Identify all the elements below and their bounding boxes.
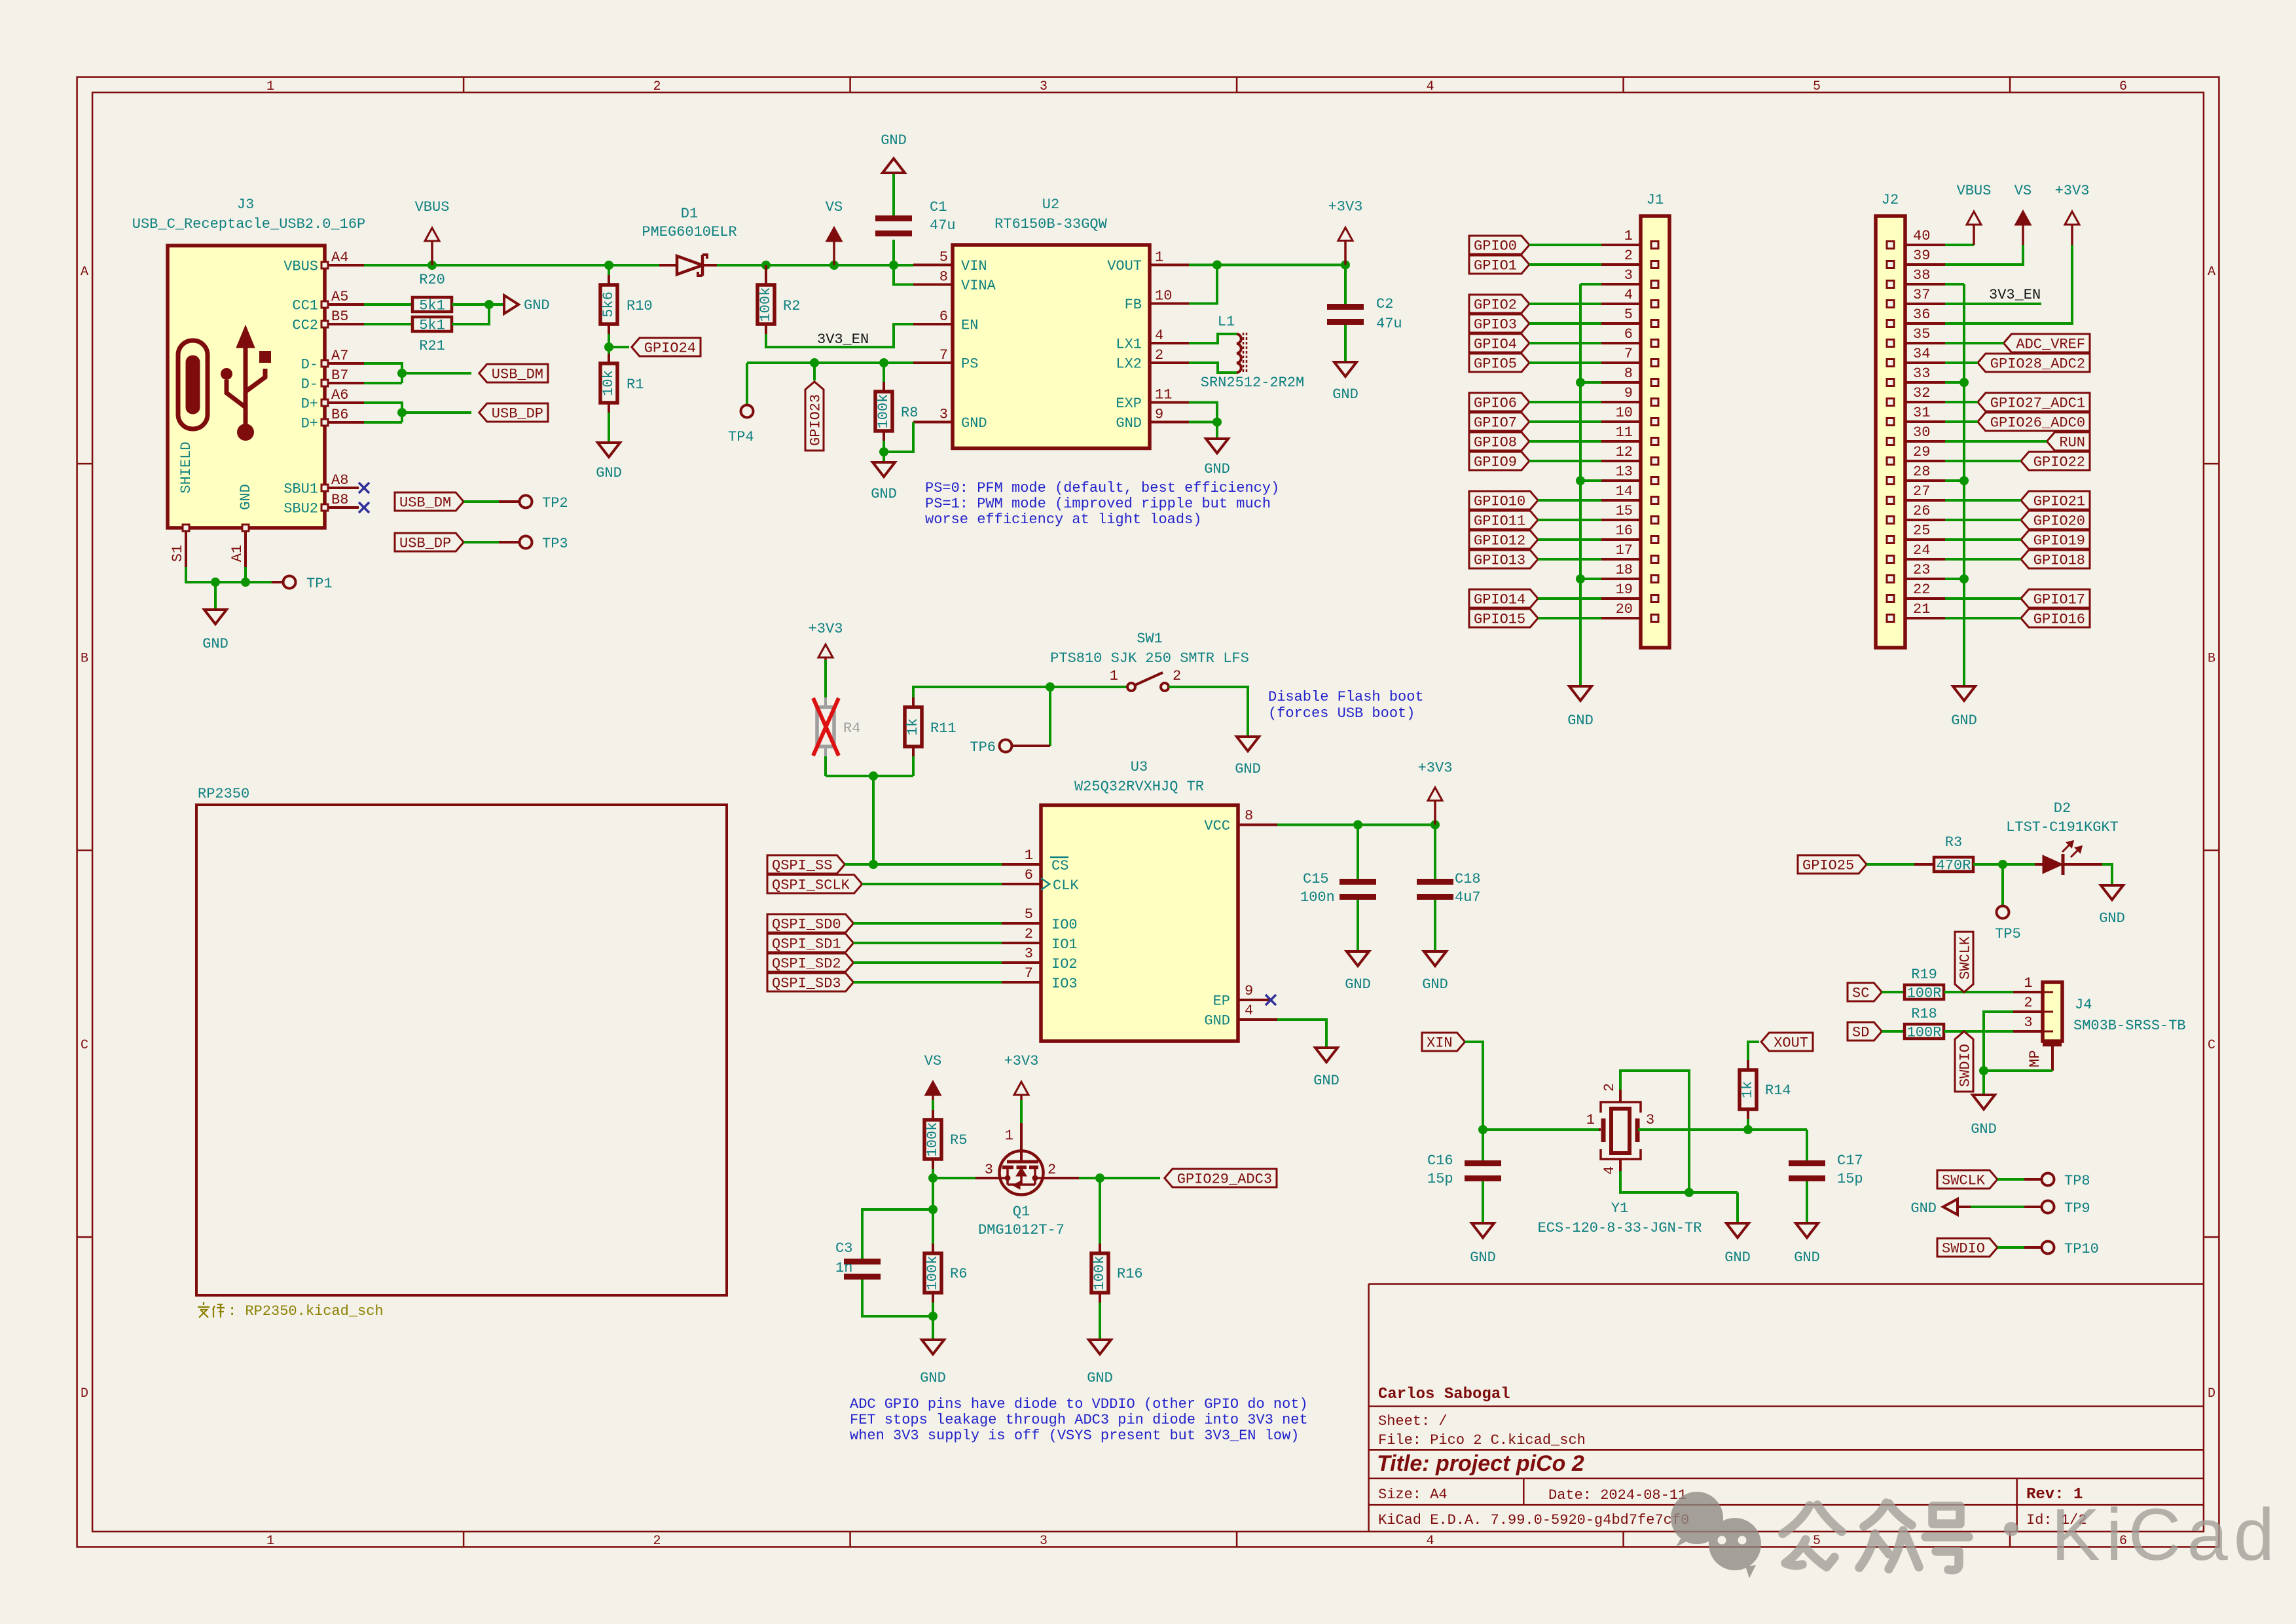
svg-text:RUN: RUN xyxy=(2059,435,2085,451)
diode D1 PMEG6010ELR xyxy=(659,264,677,267)
svg-text:Size: A4: Size: A4 xyxy=(1378,1486,1448,1503)
wire 3V3_EN to EN pin xyxy=(766,324,913,347)
svg-text:Date: 2024-08-11: Date: 2024-08-11 xyxy=(1548,1487,1686,1504)
svg-text:32: 32 xyxy=(1913,385,1930,401)
svg-text:GND: GND xyxy=(1422,976,1448,993)
J2 pin 22 xyxy=(1905,597,1945,600)
svg-text:GPIO4: GPIO4 xyxy=(1474,337,1517,353)
resistor R4 DNP grey xyxy=(824,660,827,697)
hierarchical label GPIO7 xyxy=(1469,413,1529,431)
svg-text:XIN: XIN xyxy=(1427,1035,1453,1052)
svg-text:1: 1 xyxy=(1155,249,1163,266)
capacitor C18 4u7 xyxy=(1434,825,1436,879)
svg-text:GPIO17: GPIO17 xyxy=(2033,592,2085,608)
hierarchical label GPIO17 xyxy=(2021,589,2090,608)
svg-text:J4: J4 xyxy=(2075,997,2092,1013)
wire VCC to +3V3 xyxy=(1277,824,1435,826)
ground at D2 xyxy=(2102,864,2112,885)
svg-text:TP2: TP2 xyxy=(542,495,568,511)
wire crystal pin4 to ground xyxy=(1620,1171,1738,1192)
J1 pin 10 xyxy=(1601,420,1641,423)
svg-text:GND: GND xyxy=(1971,1121,1997,1137)
J2 pin 29 xyxy=(1905,460,1945,462)
J1 pin 13 xyxy=(1601,479,1641,482)
J1 pin 9 xyxy=(1601,401,1641,403)
svg-text:GND: GND xyxy=(1332,386,1358,403)
svg-text:GND: GND xyxy=(871,486,897,502)
test point TP10 xyxy=(2042,1242,2054,1254)
resistor R10 5k6 xyxy=(604,261,613,270)
svg-text:R20: R20 xyxy=(419,272,445,288)
svg-text:USB_C_Receptacle_USB2.0_16P: USB_C_Receptacle_USB2.0_16P xyxy=(132,216,365,232)
U2 pin 6 EN xyxy=(913,323,953,325)
U3 pin 3 IO2 xyxy=(1002,961,1041,964)
U3 pin 1 CS xyxy=(1002,863,1041,866)
J1 pin 5 xyxy=(1601,322,1641,325)
svg-text:R10: R10 xyxy=(627,298,653,314)
svg-text:9: 9 xyxy=(1155,407,1163,423)
svg-text:7: 7 xyxy=(1025,965,1033,982)
svg-text:B: B xyxy=(81,652,88,667)
svg-text:A5: A5 xyxy=(331,289,348,305)
svg-text:3: 3 xyxy=(1624,267,1633,284)
svg-text:GPIO29_ADC3: GPIO29_ADC3 xyxy=(1177,1172,1272,1188)
svg-text:SRN2512-2R2M: SRN2512-2R2M xyxy=(1201,375,1304,391)
ground right-arrow at CC xyxy=(504,295,519,314)
svg-text:10k: 10k xyxy=(600,370,617,396)
power flag +3V3 at R4 xyxy=(824,657,827,660)
J2 pin 26 xyxy=(1905,519,1945,521)
svg-text:QSPI_SD3: QSPI_SD3 xyxy=(772,976,841,992)
svg-text:2: 2 xyxy=(1624,248,1633,264)
local label 3V3_EN at J2 pin37 xyxy=(1945,303,2041,305)
svg-text:25: 25 xyxy=(1913,523,1930,539)
svg-text:ADC GPIO pins have diode to VD: ADC GPIO pins have diode to VDDIO (other… xyxy=(850,1396,1308,1412)
svg-text:B5: B5 xyxy=(331,308,348,325)
J2 pin 36 xyxy=(1905,322,1945,325)
svg-text:4: 4 xyxy=(1601,1166,1618,1175)
global label GPIO24 xyxy=(604,342,613,352)
hierarchical label SWCLK vertical xyxy=(1955,932,1973,992)
connector J4 SM03B-SRSS-TB xyxy=(2043,982,2062,1041)
svg-text:B8: B8 xyxy=(331,492,348,508)
svg-text:GPIO10: GPIO10 xyxy=(1474,494,1525,510)
svg-text:2: 2 xyxy=(2024,995,2032,1011)
hierarchical sheet RP2350 xyxy=(196,805,727,1295)
svg-text:R18: R18 xyxy=(1911,1006,1937,1022)
hierarchical label SWDIO vertical xyxy=(1955,1031,1973,1092)
svg-text:100k: 100k xyxy=(924,1122,941,1157)
svg-text:GPIO26_ADC0: GPIO26_ADC0 xyxy=(1990,415,2085,432)
svg-text:ECS-120-8-33-JGN-TR: ECS-120-8-33-JGN-TR xyxy=(1538,1220,1702,1236)
svg-text:2: 2 xyxy=(1025,926,1033,942)
svg-text:R6: R6 xyxy=(950,1266,967,1282)
test point TP4 xyxy=(746,363,748,405)
svg-text:10: 10 xyxy=(1155,288,1172,304)
svg-text:15p: 15p xyxy=(1427,1171,1453,1187)
svg-text:100R: 100R xyxy=(1907,1025,1942,1041)
svg-text:CS: CS xyxy=(1051,858,1068,874)
svg-text:1: 1 xyxy=(1025,847,1033,864)
svg-text:Carlos Sabogal: Carlos Sabogal xyxy=(1378,1386,1510,1403)
svg-text:worse efficiency at light load: worse efficiency at light loads) xyxy=(925,511,1201,528)
inductor L1 SRN2512-2R2M xyxy=(1189,334,1237,343)
svg-text:40: 40 xyxy=(1913,228,1930,244)
svg-text:C: C xyxy=(2208,1038,2215,1053)
svg-text:TP4: TP4 xyxy=(728,429,754,445)
svg-text:SBU1: SBU1 xyxy=(283,481,318,498)
svg-text:47u: 47u xyxy=(1376,316,1402,332)
U2 pin 2 LX2 xyxy=(1150,361,1189,364)
svg-text:5k1: 5k1 xyxy=(419,298,445,314)
svg-text:GPIO20: GPIO20 xyxy=(2033,513,2085,530)
hierarchical label RUN xyxy=(2047,432,2090,451)
svg-text:QSPI_SD1: QSPI_SD1 xyxy=(772,936,841,953)
svg-text:EXP: EXP xyxy=(1116,396,1142,412)
hierarchical label QSPI_SS xyxy=(767,855,845,874)
hierarchical label ADC_VREF xyxy=(2003,334,2090,352)
U2 pin 10 FB xyxy=(1150,303,1189,305)
svg-text:5: 5 xyxy=(939,249,948,266)
wire S1/A1 to TP1 and GND xyxy=(186,567,272,582)
resistor R16 100k xyxy=(1099,1178,1101,1244)
svg-text:GPIO11: GPIO11 xyxy=(1474,513,1525,530)
J4 pin 3 xyxy=(2013,1030,2043,1033)
svg-text:SC: SC xyxy=(1852,986,1869,1002)
svg-text:: RP2350.kicad_sch: : RP2350.kicad_sch xyxy=(228,1303,384,1319)
wire QSPI_SS drop xyxy=(872,776,875,864)
svg-text:IO2: IO2 xyxy=(1051,956,1078,972)
resistor R11 1k xyxy=(912,756,915,776)
U2 pin 4 LX1 xyxy=(1150,342,1189,344)
svg-text:GND: GND xyxy=(596,465,622,481)
svg-text:A8: A8 xyxy=(331,472,348,489)
hierarchical label XOUT xyxy=(1761,1033,1813,1051)
svg-text:24: 24 xyxy=(1913,542,1930,559)
svg-text:LX1: LX1 xyxy=(1116,337,1142,353)
svg-text:26: 26 xyxy=(1913,503,1930,519)
svg-text:GPIO13: GPIO13 xyxy=(1474,553,1525,569)
svg-text:21: 21 xyxy=(1913,601,1930,618)
svg-text:GPIO18: GPIO18 xyxy=(2033,553,2085,569)
U3 pin 8 VCC xyxy=(1238,824,1277,826)
switch SW1 PTS810 xyxy=(1127,683,1135,691)
svg-text:U3: U3 xyxy=(1131,759,1148,775)
svg-text:C2: C2 xyxy=(1376,296,1393,312)
svg-text:2: 2 xyxy=(1155,347,1163,363)
svg-text:D+: D+ xyxy=(301,416,318,432)
hierarchical label USB_DP xyxy=(479,403,548,422)
ground at U2 GND xyxy=(1206,439,1228,453)
svg-text:15p: 15p xyxy=(1837,1171,1863,1187)
J3 pin A6 D+ xyxy=(325,401,364,404)
svg-text:VOUT: VOUT xyxy=(1107,258,1142,274)
svg-text:VBUS: VBUS xyxy=(415,199,450,215)
ground at R8 xyxy=(873,462,895,477)
J2 pin 28 xyxy=(1905,479,1945,482)
hierarchical label GPIO5 xyxy=(1469,354,1529,372)
svg-text:1: 1 xyxy=(1110,668,1118,684)
svg-text:17: 17 xyxy=(1616,542,1633,559)
svg-text:IO1: IO1 xyxy=(1051,936,1078,953)
svg-text:GND: GND xyxy=(1087,1370,1113,1386)
svg-text:IO0: IO0 xyxy=(1051,917,1078,933)
power flag VBUS xyxy=(428,261,437,270)
hierarchical label SC xyxy=(1848,983,1882,1001)
resistor R6 100k xyxy=(932,1244,934,1253)
svg-text:FET stops leakage through ADC3: FET stops leakage through ADC3 pin diode… xyxy=(850,1412,1308,1428)
hierarchical label GPIO23 vertical xyxy=(813,363,816,380)
svg-text:D: D xyxy=(81,1386,88,1401)
power flag +3V3 at J2 pin36 xyxy=(1945,245,2072,323)
svg-text:VBUS: VBUS xyxy=(283,259,318,275)
power flag +3V3 at U3 xyxy=(1434,801,1436,825)
svg-text:GND: GND xyxy=(1116,415,1142,432)
hierarchical label QSPI_SD0 xyxy=(767,914,854,932)
svg-text:R5: R5 xyxy=(950,1132,967,1149)
svg-text:1k: 1k xyxy=(1740,1081,1756,1098)
svg-text:100k: 100k xyxy=(1091,1256,1108,1291)
svg-text:GPIO25: GPIO25 xyxy=(1802,858,1854,874)
svg-text:PS=0: PFM mode (default, best: PS=0: PFM mode (default, best efficiency… xyxy=(925,480,1279,496)
svg-text:GPIO22: GPIO22 xyxy=(2033,454,2085,471)
svg-text:6: 6 xyxy=(939,308,948,325)
svg-text:J2: J2 xyxy=(1882,192,1899,208)
svg-text:5: 5 xyxy=(1813,79,1821,94)
resistor R20 5k1 xyxy=(364,303,412,306)
ground at crystal xyxy=(1726,1223,1749,1238)
J4 pin 1 xyxy=(2013,991,2043,993)
svg-text:SWCLK: SWCLK xyxy=(1958,936,1974,980)
J2 pin 33 xyxy=(1905,381,1945,384)
svg-text:KiCad: KiCad xyxy=(2051,1494,2280,1576)
IC U2 RT6150B-33GQW xyxy=(953,245,1150,449)
test point TP8 xyxy=(2042,1173,2054,1186)
svg-text:470R: 470R xyxy=(1937,858,1971,874)
svg-text:D1: D1 xyxy=(681,206,698,222)
U2 pin 5 VIN xyxy=(913,264,953,267)
svg-text:LTST-C191KGKT: LTST-C191KGKT xyxy=(2006,819,2119,836)
hierarchical label SD xyxy=(1848,1022,1882,1041)
ground at U3 GND xyxy=(1315,1048,1338,1062)
U3 pin 7 IO3 xyxy=(1002,981,1041,984)
resistor R19 100R xyxy=(1904,985,1944,999)
U3 pin 5 IO0 xyxy=(1002,922,1041,925)
IC U3 W25Q32RVXHJQ xyxy=(1041,805,1238,1042)
svg-text:PS: PS xyxy=(961,356,978,373)
hierarchical label GPIO0 xyxy=(1469,236,1529,254)
svg-text:GPIO14: GPIO14 xyxy=(1474,592,1525,608)
title block xyxy=(1369,1284,2204,1532)
svg-text:SBU2: SBU2 xyxy=(283,501,318,517)
U2 pin 1 VOUT xyxy=(1150,264,1189,267)
svg-text:B: B xyxy=(2208,652,2215,667)
svg-text:100k: 100k xyxy=(875,394,892,429)
hierarchical label GPIO21 xyxy=(2021,491,2090,509)
ground at C17 xyxy=(1796,1223,1818,1238)
J2 pin 40 xyxy=(1905,244,1945,246)
svg-text:D-: D- xyxy=(301,377,318,393)
wire USB data D- xyxy=(364,363,402,383)
Q1 gate wire xyxy=(933,1177,975,1179)
J1 pin 19 xyxy=(1601,597,1641,600)
svg-text:C18: C18 xyxy=(1455,871,1481,887)
svg-text:A6: A6 xyxy=(331,387,348,403)
svg-text:33: 33 xyxy=(1913,365,1930,382)
svg-text:R11: R11 xyxy=(930,720,957,737)
hierarchical label GPIO16 xyxy=(2021,609,2090,627)
ground at J3 xyxy=(214,582,217,610)
svg-text:GND: GND xyxy=(1470,1249,1496,1266)
svg-text:VCC: VCC xyxy=(1204,818,1230,834)
ground at J4 xyxy=(1973,1095,1995,1109)
svg-text:EP: EP xyxy=(1213,993,1230,1010)
svg-text:W25Q32RVXHJQ TR: W25Q32RVXHJQ TR xyxy=(1074,779,1204,795)
test point TP9 xyxy=(2042,1201,2054,1213)
svg-text:1: 1 xyxy=(266,79,274,94)
hierarchical label GPIO15 xyxy=(1469,609,1538,627)
J2 pin 31 xyxy=(1905,420,1945,423)
svg-text:+3V3: +3V3 xyxy=(1418,760,1453,777)
svg-text:TP3: TP3 xyxy=(542,536,568,552)
svg-text:37: 37 xyxy=(1913,287,1930,303)
svg-text:18: 18 xyxy=(1616,562,1633,578)
sheet file label xyxy=(198,1302,225,1318)
test point TP1 xyxy=(283,576,296,589)
transistor Q1 DMG1012T-7 xyxy=(1020,1100,1023,1123)
svg-text:SWDIO: SWDIO xyxy=(1942,1241,1985,1257)
svg-text:QSPI_SCLK: QSPI_SCLK xyxy=(772,877,850,894)
svg-text:GND: GND xyxy=(524,297,550,314)
svg-text:Q1: Q1 xyxy=(1013,1204,1030,1220)
svg-text:RT6150B-33GQW: RT6150B-33GQW xyxy=(994,216,1107,232)
svg-text:R4: R4 xyxy=(843,720,860,737)
ground at C15 xyxy=(1347,951,1369,966)
svg-text:1n: 1n xyxy=(835,1260,852,1276)
svg-text:30: 30 xyxy=(1913,424,1930,441)
capacitor C2 47u xyxy=(1344,265,1347,304)
J3 pin B6 D+ xyxy=(325,421,364,424)
resistor R2 100k xyxy=(761,261,771,270)
svg-text:SW1: SW1 xyxy=(1137,631,1163,647)
power flag VS xyxy=(829,261,839,270)
hierarchical label GPIO28_ADC2 xyxy=(1978,354,2090,372)
no-connect SBU1 xyxy=(359,483,369,493)
J3 pin A7 D- xyxy=(325,362,364,365)
svg-text:CC1: CC1 xyxy=(292,298,318,314)
capacitor C15 100n xyxy=(1357,825,1359,879)
svg-text:D-: D- xyxy=(301,357,318,373)
svg-text:16: 16 xyxy=(1616,523,1633,539)
svg-text:3: 3 xyxy=(1040,79,1048,94)
svg-text:R2: R2 xyxy=(783,298,800,314)
svg-text:TP9: TP9 xyxy=(2064,1200,2090,1217)
U2 pin 8 VINA xyxy=(913,284,953,286)
svg-text:GND: GND xyxy=(1724,1249,1751,1266)
hierarchical label GPIO12 xyxy=(1469,530,1538,549)
hierarchical label USB_DM xyxy=(479,364,548,382)
wire crystal out xyxy=(1638,1128,1807,1131)
wire crystal pin2 loop xyxy=(1620,1071,1689,1192)
svg-text:GPIO28_ADC2: GPIO28_ADC2 xyxy=(1990,356,2085,373)
svg-text:EN: EN xyxy=(961,318,978,334)
svg-text:35: 35 xyxy=(1913,326,1930,342)
svg-text:GND: GND xyxy=(1235,761,1261,777)
svg-text:C16: C16 xyxy=(1427,1153,1453,1169)
J1 pin 6 xyxy=(1601,342,1641,344)
J3 pin A5 CC1 xyxy=(325,303,364,306)
J4 pin 2 xyxy=(2013,1010,2043,1013)
svg-text:3V3_EN: 3V3_EN xyxy=(1989,287,2041,303)
svg-text:VS: VS xyxy=(2014,183,2032,199)
svg-text:1: 1 xyxy=(1586,1112,1595,1128)
resistor R18 100R xyxy=(1904,1024,1944,1039)
svg-text:SD: SD xyxy=(1852,1025,1869,1041)
svg-text:GND: GND xyxy=(1204,461,1230,477)
svg-text:LX2: LX2 xyxy=(1116,356,1142,373)
svg-text:4: 4 xyxy=(1624,287,1633,303)
power flag +3V3 at Q1 xyxy=(1020,1095,1023,1100)
svg-text:GPIO6: GPIO6 xyxy=(1474,396,1517,412)
svg-text:5k6: 5k6 xyxy=(600,291,617,318)
J2 pin 27 xyxy=(1905,499,1945,502)
svg-text:38: 38 xyxy=(1913,267,1930,284)
resistor R1 10k xyxy=(608,354,610,363)
resistor R14 1k xyxy=(1747,1119,1749,1130)
svg-text:28: 28 xyxy=(1913,464,1930,480)
svg-text:Y1: Y1 xyxy=(1611,1200,1628,1217)
J2 pin 34 xyxy=(1905,361,1945,364)
svg-text:MP: MP xyxy=(2027,1050,2043,1067)
J2 pin 25 xyxy=(1905,538,1945,541)
svg-text:5: 5 xyxy=(1813,1534,1821,1549)
svg-text:B6: B6 xyxy=(331,407,348,423)
svg-text:Disable Flash boot: Disable Flash boot xyxy=(1268,689,1424,705)
svg-text:8: 8 xyxy=(1245,808,1253,824)
svg-text:2: 2 xyxy=(653,79,661,94)
power flag +3V3 at VOUT xyxy=(1341,261,1350,270)
J1 pin 4 xyxy=(1601,303,1641,305)
svg-text:8: 8 xyxy=(939,269,948,286)
svg-text:47u: 47u xyxy=(930,217,956,234)
svg-text:C15: C15 xyxy=(1303,871,1329,887)
wire VOUT to +3V3 xyxy=(1189,264,1345,267)
svg-text:29: 29 xyxy=(1913,444,1930,460)
hierarchical label GPIO25 xyxy=(1798,855,1867,874)
U3 pin 4 GND xyxy=(1238,1018,1277,1021)
svg-text:5: 5 xyxy=(1624,306,1633,323)
hierarchical label GPIO1 xyxy=(1469,255,1529,274)
wire VBUS rail xyxy=(364,264,659,267)
J3 pin A8 SBU1 xyxy=(325,487,359,489)
svg-text:4u7: 4u7 xyxy=(1455,889,1481,906)
svg-text:TP6: TP6 xyxy=(970,739,996,756)
svg-text:100k: 100k xyxy=(757,287,774,322)
svg-text:GND: GND xyxy=(961,415,987,432)
wire FB to VOUT xyxy=(1189,265,1217,304)
svg-text:L1: L1 xyxy=(1218,314,1235,330)
svg-text:2: 2 xyxy=(1048,1162,1056,1178)
svg-text:100R: 100R xyxy=(1907,986,1942,1002)
hierarchical label GPIO11 xyxy=(1469,511,1538,529)
svg-text:GPIO0: GPIO0 xyxy=(1474,238,1517,255)
svg-text:VINA: VINA xyxy=(961,278,996,294)
wire EXP GND9 to ground xyxy=(1189,403,1217,422)
svg-text:Title: project piCo 2: Title: project piCo 2 xyxy=(1377,1451,1584,1476)
svg-text:GPIO15: GPIO15 xyxy=(1474,612,1525,628)
svg-text:A: A xyxy=(81,265,88,280)
J1 pin 7 xyxy=(1601,361,1641,364)
